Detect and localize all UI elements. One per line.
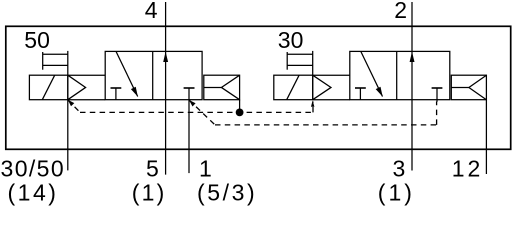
valve V2 left square exhaust path arrow <box>361 51 383 96</box>
valve V1 pneumatic spring return <box>204 75 240 100</box>
svg-text:4: 4 <box>145 0 158 23</box>
pilot arrow B at V1 port 1 <box>189 100 196 107</box>
valve V2 right square blocked port T <box>432 88 443 102</box>
svg-text:(14): (14) <box>8 179 59 205</box>
valve V1 solenoid coil <box>29 75 67 100</box>
valve V1 pilot supply port symbol (50) <box>43 52 68 70</box>
valve V2 solenoid coil <box>274 75 313 100</box>
pilot arrow at V1 <box>68 100 75 107</box>
svg-text:30/50: 30/50 <box>1 156 66 182</box>
valve V1 right square flow arrow up <box>163 52 168 62</box>
valve V2 pilot triangle <box>313 75 331 100</box>
svg-text:5: 5 <box>146 156 159 182</box>
valve V1 left square blocked port T <box>111 88 122 100</box>
junction dot <box>236 109 244 117</box>
valve V1 right square blocked port T <box>184 87 195 89</box>
valve V2 pilot stage box <box>313 75 350 100</box>
svg-text:(5/3): (5/3) <box>197 179 257 205</box>
svg-text:3: 3 <box>393 156 406 182</box>
svg-text:(1): (1) <box>378 179 415 205</box>
svg-text:1: 1 <box>199 156 212 182</box>
pilot control line A (dashed) <box>68 100 313 113</box>
svg-text:12: 12 <box>452 156 483 182</box>
pilot control line B (dashed) <box>189 100 437 125</box>
wire spring pilot drop <box>239 100 241 113</box>
svg-text:(1): (1) <box>132 179 167 205</box>
valve V1 pilot stage box <box>68 75 105 100</box>
pilot arrow at V2 <box>311 100 314 106</box>
wire port 2 vertical line <box>411 2 413 171</box>
svg-text:50: 50 <box>24 27 50 53</box>
valve V1 body <box>105 51 202 99</box>
svg-text:2: 2 <box>394 0 407 23</box>
wire port 1 line <box>188 88 190 173</box>
valve V2 right square flow arrow up <box>410 52 415 62</box>
valve V1 pilot line vertical (to 30/50) <box>67 51 69 170</box>
valve V2 left square blocked port T <box>355 88 366 100</box>
valve V1 pilot triangle <box>68 75 86 100</box>
valve V1 left square exhaust path arrow 4-5 <box>116 51 138 96</box>
enclosure frame <box>6 26 511 149</box>
svg-text:30: 30 <box>278 27 304 53</box>
valve V2 pilot supply port symbol (30) <box>287 52 313 70</box>
wire port 4 vertical line <box>165 2 167 175</box>
valve V2 body <box>350 51 450 99</box>
valve V2 pneumatic spring return <box>451 75 486 100</box>
valve V2 pilot line vertical <box>312 51 314 100</box>
wire port 12 line <box>485 100 487 174</box>
